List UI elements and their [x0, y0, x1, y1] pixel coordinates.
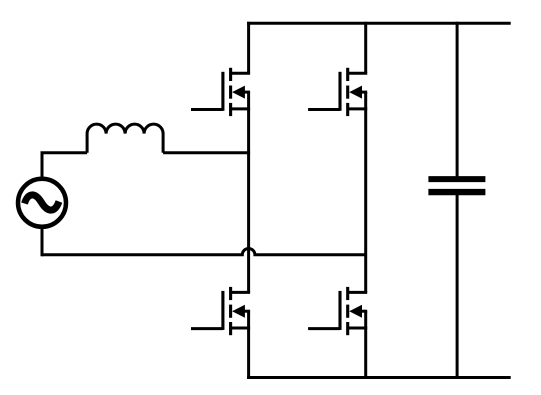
transistor Q2 (top-right MOSFET): [308, 68, 367, 116]
wire: left leg bottom segment to bottom bus: [247, 311, 250, 379]
wire: left leg drain segment from top bus: [247, 22, 250, 74]
transistor Q4 (bottom-right MOSFET): [308, 287, 367, 335]
wire: capacitor bottom lead: [456, 194, 459, 380]
transistor Q3 (bottom-left MOSFET): [191, 287, 250, 335]
wire: right leg drain segment from top bus: [364, 22, 367, 74]
inductor L1: [87, 124, 163, 153]
wire: ac source bottom lead: [41, 225, 44, 256]
wire: capacitor top lead: [456, 22, 459, 178]
wire: top bus (positive rail): [247, 22, 511, 25]
ac source V1: [18, 179, 66, 227]
wire: right leg bottom segment to bottom bus: [364, 311, 367, 379]
wire: ac source top lead: [41, 153, 44, 180]
wire: inductor to left leg midpoint node: [163, 151, 250, 154]
wire: top horizontal to inductor: [41, 151, 88, 154]
wire: bottom bus (negative rail): [247, 376, 511, 379]
transistor Q1 (top-left MOSFET): [191, 68, 250, 116]
wire: bottom horizontal with crossover hop, to right leg midpoint node: [42, 249, 366, 255]
wire: right leg middle segment (Q2 source to Q4 drain): [364, 92, 367, 292]
wire: left leg middle segment (Q1 source to Q3 drain): [247, 92, 250, 292]
capacitor C1: [428, 179, 485, 192]
